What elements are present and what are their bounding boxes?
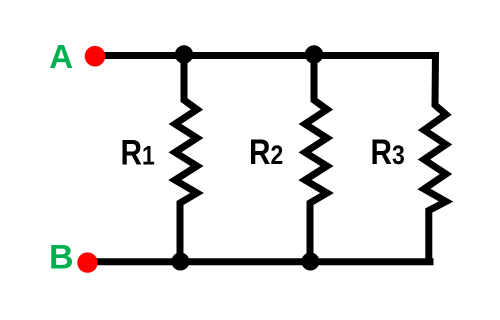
resistor R1 (left branch with zigzag): [175, 55, 197, 263]
resistor R2 (middle branch with zigzag): [305, 55, 327, 263]
terminal dot: node B: [77, 252, 97, 272]
wire: bottom bus from node B to bottom-right corner: [87, 258, 434, 265]
junction: top node of R1 branch: [175, 45, 193, 63]
label R1: [121, 133, 155, 172]
label R2: [249, 133, 283, 172]
svg-text:R3: R3: [371, 133, 405, 172]
junction: top node of R2 branch: [305, 45, 323, 63]
junction: bottom node of R1 branch: [171, 253, 189, 271]
wire: top bus from node A to top-right corner: [95, 52, 439, 59]
junction: bottom node of R2 branch: [301, 253, 319, 271]
label R3: [371, 133, 405, 172]
svg-text:R1: R1: [121, 133, 155, 172]
resistor R3 (right branch with zigzag): [424, 52, 446, 262]
svg-text:A: A: [49, 38, 73, 75]
svg-text:R2: R2: [249, 133, 283, 172]
terminal dot: node A: [85, 46, 106, 67]
svg-text:B: B: [49, 238, 74, 276]
